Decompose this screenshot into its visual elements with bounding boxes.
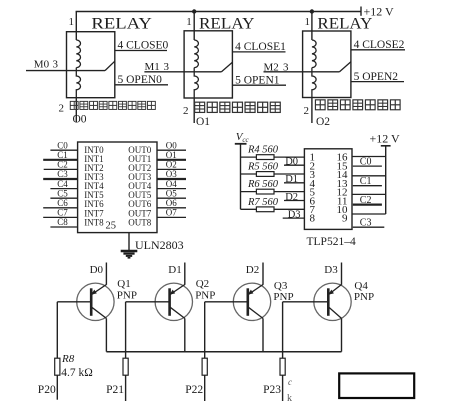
svg-text:OUT8: OUT8 xyxy=(128,217,151,227)
transistor Q3 circle xyxy=(233,283,270,320)
svg-text:4 CLOSE0: 4 CLOSE0 xyxy=(118,40,169,52)
svg-text:3: 3 xyxy=(164,61,170,73)
svg-text:Q2: Q2 xyxy=(196,278,209,290)
wire D3 down to Q4 emitter xyxy=(341,263,343,285)
svg-text:4.7 kΩ: 4.7 kΩ xyxy=(61,367,93,379)
svg-text:C0: C0 xyxy=(57,140,68,150)
wire Vcc to U2 pin 7 through R7 xyxy=(241,208,305,210)
wire relay K3 pin 2 to O2 xyxy=(311,98,313,124)
svg-text:P21: P21 xyxy=(106,384,124,396)
svg-text:C3: C3 xyxy=(57,169,68,179)
svg-text:C2: C2 xyxy=(360,195,372,206)
wire relay K1 pin 5 OPEN0 xyxy=(115,84,168,86)
svg-text:M2: M2 xyxy=(264,62,279,74)
transistor Q2 emitter xyxy=(170,285,185,295)
wire U1 output OUT0 to O0 xyxy=(157,149,186,151)
svg-text:3: 3 xyxy=(53,59,59,71)
wire relay K1 pin 1 from +12V rail xyxy=(75,12,77,41)
svg-text:C6: C6 xyxy=(57,198,68,208)
wire U1 output OUT1 to O1 xyxy=(157,159,186,161)
wire relay K1 pin 2 to O0 xyxy=(75,98,77,123)
relay K3 box xyxy=(303,31,351,98)
relay K3 switch arm xyxy=(340,62,351,72)
relay K1 coil xyxy=(76,40,80,98)
wire P20 column xyxy=(56,302,58,400)
wire input M0 pin 3 to relay K1 common xyxy=(26,70,105,72)
svg-text:D1: D1 xyxy=(285,174,298,185)
svg-text:O4: O4 xyxy=(166,179,177,189)
wire U1 output OUT3 to O3 xyxy=(157,178,186,180)
svg-text:C1: C1 xyxy=(360,176,372,187)
wire relay K2 pin 5 OPEN1 xyxy=(232,84,286,86)
svg-text:3: 3 xyxy=(283,62,289,74)
wire D2 down to Q3 emitter xyxy=(262,263,264,285)
transistor Q1 circle xyxy=(77,283,114,320)
svg-text:R4 560: R4 560 xyxy=(247,145,279,156)
svg-text:O1: O1 xyxy=(166,150,177,160)
wire Q2 collector to common rail xyxy=(184,318,186,351)
wire relay K1 pin 4 CLOSE0 xyxy=(115,50,167,52)
wire U1 output OUT6 to O6 xyxy=(157,207,186,209)
svg-text:O6: O6 xyxy=(166,198,177,208)
wire relay K3 pin 1 from +12V rail xyxy=(311,12,313,41)
svg-text:Q4: Q4 xyxy=(354,280,368,292)
wire Q1 collector to common rail xyxy=(105,318,107,351)
transistor Q4 emitter arrow (PNP) xyxy=(328,290,334,295)
transistor Q4 collector xyxy=(328,307,341,319)
wire input M2 pin 3 to relay K3 common xyxy=(264,71,340,73)
svg-text:ULN2803: ULN2803 xyxy=(135,238,184,252)
power Vcc terminal bar xyxy=(235,143,247,145)
transistor Q3 collector xyxy=(248,307,263,319)
transistor Q2 emitter arrow (PNP) xyxy=(169,290,175,295)
optocoupler U2 TLP521-4 box xyxy=(304,149,352,230)
svg-text:INT8: INT8 xyxy=(84,217,104,227)
wire U2 pin 12 to +12V rail xyxy=(352,193,386,195)
svg-text:R5 560: R5 560 xyxy=(247,162,279,173)
svg-text:RELAY: RELAY xyxy=(199,16,255,33)
svg-text:RELAY: RELAY xyxy=(91,16,151,33)
wire U1 input INT6 from C6 xyxy=(43,207,77,209)
svg-text:1: 1 xyxy=(305,16,311,28)
svg-text:1: 1 xyxy=(69,16,75,28)
wire P22 column xyxy=(204,302,206,401)
wire U1 input INT8 from C8 xyxy=(50,226,77,228)
wire +12V top supply rail xyxy=(76,11,361,13)
transistor Q4 emitter xyxy=(328,285,341,295)
watermark cover box xyxy=(339,373,414,398)
driver U1 ULN2803 box xyxy=(78,142,157,233)
svg-text:TLP521–4: TLP521–4 xyxy=(307,236,356,248)
wire relay K3 pin 5 OPEN2 xyxy=(351,81,404,83)
svg-text:D3: D3 xyxy=(324,264,338,276)
svg-text:8: 8 xyxy=(310,213,316,225)
wire U1 input INT0 from C0 xyxy=(50,149,77,151)
wire U1 pin 25 to ground xyxy=(128,233,130,251)
svg-text:PNP: PNP xyxy=(195,289,215,301)
svg-text:5 OPEN2: 5 OPEN2 xyxy=(354,71,399,83)
svg-text:Q1: Q1 xyxy=(117,278,130,290)
svg-text:k: k xyxy=(287,393,292,404)
transistor Q2 circle xyxy=(155,283,192,320)
svg-text:R6 560: R6 560 xyxy=(247,179,279,190)
svg-text:5 OPEN1: 5 OPEN1 xyxy=(235,74,280,86)
wire U2 pin 11 to C2 xyxy=(353,204,382,206)
junction dot relay K2 pin 1 on +12V rail xyxy=(192,9,196,13)
wire Q4 collector to common rail xyxy=(341,318,343,351)
svg-text:O1: O1 xyxy=(196,116,210,128)
svg-text:D0: D0 xyxy=(285,157,298,168)
svg-text:M0: M0 xyxy=(34,59,50,71)
svg-text:C4: C4 xyxy=(57,179,68,189)
wire input M1 pin 3 to relay K2 common xyxy=(144,71,221,73)
wire D0 to U2 pin 2 xyxy=(284,164,304,166)
svg-text:O3: O3 xyxy=(166,169,177,179)
transistor Q3 emitter arrow (PNP) xyxy=(248,290,254,295)
relay K2 switch arm xyxy=(222,62,233,72)
wire D0 down to Q1 emitter xyxy=(105,263,107,285)
transistor Q2 collector xyxy=(170,307,185,319)
svg-text:R7 560: R7 560 xyxy=(247,197,279,208)
resistor R4 body xyxy=(256,155,274,160)
wire relay K2 pin 1 from +12V rail xyxy=(193,12,195,41)
svg-text:O2: O2 xyxy=(166,160,177,170)
transistor Q3 emitter xyxy=(248,285,263,295)
relay K2 caption (Chinese: switch function) xyxy=(195,102,205,112)
wire U1 output OUT2 to O2 xyxy=(157,168,186,170)
relay K1 box xyxy=(67,32,115,98)
wire D2 to U2 pin 6 xyxy=(284,200,304,202)
relay K2 box xyxy=(184,31,232,98)
ground symbol xyxy=(121,251,138,258)
wire U2 pin 10 to +12V rail xyxy=(352,213,386,215)
resistor R6 body xyxy=(256,189,274,194)
transistor Q4 circle xyxy=(314,283,351,320)
svg-text:1: 1 xyxy=(186,16,192,28)
power +12V terminal tick xyxy=(360,7,362,16)
svg-text:O7: O7 xyxy=(166,208,177,218)
svg-text:M1: M1 xyxy=(145,61,160,73)
wire Q1 base to P20 column xyxy=(57,301,91,303)
svg-text:+12 V: +12 V xyxy=(370,132,401,146)
resistor R7 body xyxy=(256,207,274,212)
wire Q4 base to P23 column xyxy=(283,301,329,303)
wire +12V rail (right) xyxy=(385,146,387,214)
svg-text:c: c xyxy=(288,377,292,387)
resistor body on P22 column xyxy=(202,358,207,375)
svg-text:O5: O5 xyxy=(166,188,177,198)
wire U1 output OUT7 to O7 xyxy=(157,216,186,218)
svg-text:D2: D2 xyxy=(246,264,259,276)
relay K1 caption (Chinese: switch function) xyxy=(70,101,78,109)
wire U1 input INT2 from C2 xyxy=(44,168,78,170)
svg-text:D3: D3 xyxy=(288,210,301,221)
svg-text:O0: O0 xyxy=(73,114,87,126)
transistor Q1 emitter xyxy=(91,285,106,295)
wire relay K2 pin 4 CLOSE1 xyxy=(232,51,285,53)
svg-text:9: 9 xyxy=(342,213,348,225)
wire relay K3 pin 4 CLOSE2 xyxy=(351,49,405,51)
wire Q2 base to P21 column xyxy=(126,301,170,303)
svg-text:Q3: Q3 xyxy=(274,280,288,292)
resistor body on P20 column xyxy=(55,358,60,375)
svg-text:D2: D2 xyxy=(285,192,298,203)
svg-text:R8: R8 xyxy=(61,353,75,365)
svg-text:C1: C1 xyxy=(57,150,68,160)
svg-text:P23: P23 xyxy=(263,384,281,396)
wire U1 input INT5 from C5 xyxy=(50,197,77,199)
svg-text:C3: C3 xyxy=(360,218,372,229)
wire U1 output OUT5 to O5 xyxy=(157,197,186,199)
transistor Q1 emitter arrow (PNP) xyxy=(91,290,97,295)
wire U1 input INT7 from C7 xyxy=(43,216,77,218)
relay K3 caption (Chinese: switch function) xyxy=(315,100,325,110)
svg-text:C8: C8 xyxy=(57,217,68,227)
junction dot relay K3 pin 1 on +12V rail xyxy=(310,9,314,13)
wire Vcc feed rail xyxy=(240,144,242,210)
wire common rail (collectors) xyxy=(106,351,341,353)
svg-text:C0: C0 xyxy=(360,157,372,168)
relay K3 coil xyxy=(312,40,316,98)
wire U1 output OUT4 to O4 xyxy=(157,188,186,190)
wire Vcc to U2 pin 1 through R4 xyxy=(241,156,305,158)
svg-text:C5: C5 xyxy=(57,188,68,198)
wire P23 column xyxy=(282,302,284,401)
wire U2 pin 16 to +12V rail xyxy=(352,156,386,158)
resistor body on P21 column xyxy=(123,358,128,375)
wire D3 to U2 pin 8 xyxy=(283,217,305,219)
wire U1 input INT1 from C1 xyxy=(43,159,77,161)
wire P21 column xyxy=(125,302,127,401)
resistor R5 body xyxy=(256,172,274,177)
wire U1 input INT3 from C3 xyxy=(43,178,77,180)
transistor Q4 base bar xyxy=(327,288,330,316)
wire relay K2 pin 2 to O1 xyxy=(193,98,195,123)
wire U2 pin 13 to C1 xyxy=(353,185,382,187)
wire D1 down to Q2 emitter xyxy=(184,263,186,285)
wire U2 pin 14 to +12V rail xyxy=(352,175,386,177)
svg-text:RELAY: RELAY xyxy=(317,16,372,33)
wire Vcc to U2 pin 5 through R6 xyxy=(241,191,305,193)
svg-text:D1: D1 xyxy=(168,264,181,276)
wire D1 to U2 pin 4 xyxy=(284,182,304,184)
svg-text:cc: cc xyxy=(242,136,249,144)
wire U2 pin 9 to C3 xyxy=(353,226,385,228)
svg-text:PNP: PNP xyxy=(354,291,374,303)
relay K1 switch arm xyxy=(105,61,115,70)
scan artifact glyphs near P23 xyxy=(287,377,292,404)
svg-text:D0: D0 xyxy=(90,264,104,276)
wire Q3 collector to common rail xyxy=(262,318,264,351)
svg-text:C2: C2 xyxy=(57,160,68,170)
svg-text:5 OPEN0: 5 OPEN0 xyxy=(118,74,163,86)
wire Q3 base to P22 column xyxy=(205,301,248,303)
svg-text:P20: P20 xyxy=(38,384,56,396)
power +12V terminal bar (right) xyxy=(381,145,391,147)
svg-text:4 CLOSE2: 4 CLOSE2 xyxy=(354,39,405,51)
wire U1 input INT4 from C4 xyxy=(50,188,77,190)
transistor Q2 base bar xyxy=(168,288,171,316)
transistor Q1 base bar xyxy=(90,288,93,316)
svg-text:PNP: PNP xyxy=(117,289,137,301)
svg-text:2: 2 xyxy=(183,105,189,117)
svg-text:2: 2 xyxy=(304,105,310,117)
wire Vcc to U2 pin 3 through R5 xyxy=(241,173,305,175)
svg-text:O0: O0 xyxy=(166,140,177,150)
svg-text:P22: P22 xyxy=(185,384,203,396)
svg-text:4 CLOSE1: 4 CLOSE1 xyxy=(235,41,286,53)
svg-text:25: 25 xyxy=(106,220,117,231)
resistor body on P23 column xyxy=(280,358,285,375)
transistor Q3 base bar xyxy=(247,288,250,316)
wire U2 pin 15 to C0 xyxy=(353,165,382,167)
svg-text:O2: O2 xyxy=(316,116,330,128)
svg-text:C7: C7 xyxy=(57,208,68,218)
svg-text:2: 2 xyxy=(59,103,65,115)
transistor Q1 collector xyxy=(91,307,106,319)
relay K2 coil xyxy=(194,40,198,98)
